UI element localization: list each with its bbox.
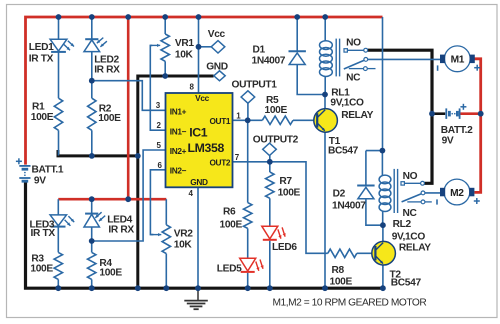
wire VR2 top lead [165, 199, 167, 225]
wire LED3 cathode to R3 [57, 227, 59, 253]
svg-text:LED1: LED1 [29, 42, 54, 53]
svg-text:BC547: BC547 [391, 277, 422, 288]
LED1 IR TX diode [50, 39, 67, 51]
node OUTPUT2 tag [263, 143, 277, 155]
LED4 IR RX diode [85, 213, 98, 215]
svg-text:LED6: LED6 [272, 242, 297, 253]
svg-text:100E: 100E [220, 219, 243, 230]
motor M2 polarity marks [436, 199, 438, 204]
svg-text:LED5: LED5 [217, 264, 242, 275]
resistor R4 [88, 252, 96, 279]
resistor R6 [244, 203, 252, 229]
relay RL1 pole [344, 60, 364, 69]
wire BATT.2 minus stub (black) [432, 112, 445, 115]
svg-text:VR2: VR2 [174, 229, 193, 240]
ground symbol [197, 288, 199, 300]
wire RL2 supply branch [366, 150, 383, 152]
junction dot R2 bottom [89, 153, 95, 159]
svg-text:GND: GND [206, 62, 228, 73]
resistor R1 [54, 98, 62, 130]
svg-text:M2: M2 [450, 188, 464, 199]
wire riser +9V rail end down to RL2 (blue) [382, 17, 384, 151]
relay RL1 coil [320, 41, 333, 50]
svg-text:D1: D1 [253, 45, 266, 56]
svg-text:Vcc: Vcc [195, 93, 209, 103]
potentiometer VR2 [162, 225, 170, 254]
junction dot Vcc stub [196, 44, 202, 50]
junction dot OUT1 node [245, 117, 251, 123]
resistor R2 [88, 98, 96, 130]
wire LED1 anode [58, 17, 60, 39]
junction dot BATT.2 plus [478, 111, 484, 117]
svg-text:100E: 100E [98, 113, 121, 124]
svg-text:VR1: VR1 [175, 38, 194, 49]
wire Vcc tag stub [199, 46, 212, 48]
motor M1 [444, 46, 470, 72]
wire T2 collector [382, 225, 384, 241]
wire BATT.2 plus to motors M1/M2 (red) [474, 59, 480, 193]
svg-text:RELAY: RELAY [341, 110, 373, 121]
svg-text:NO: NO [403, 171, 418, 182]
wire RL1 pole to M1 [368, 58, 441, 60]
wire GND bus from GND tag left and down (black) [138, 76, 214, 288]
wire VR2 bottom to ground bus [165, 254, 167, 289]
wire T1 emitter to ground bus [324, 131, 326, 288]
wire node LED4-R4 to IC pin5 IN2+ [92, 150, 166, 241]
relay RL2 pole [402, 194, 421, 202]
svg-text:OUTPUT1: OUTPUT1 [232, 79, 278, 90]
junction dot RL2 supply node [380, 148, 386, 154]
junction dot T1 collector node [322, 92, 328, 98]
wire +9V drop to IR LED supply row (red) [127, 17, 130, 199]
svg-text:M1,M2 = 10 RPM GEARED MOTOR: M1,M2 = 10 RPM GEARED MOTOR [273, 298, 427, 309]
svg-text:RL2: RL2 [393, 219, 412, 230]
svg-text:R1: R1 [32, 101, 45, 112]
wire VR1 top lead [164, 17, 166, 34]
junction dots IR LED supply row [89, 196, 95, 202]
motor M1 polarity marks [437, 65, 439, 70]
svg-text:9V,1CO: 9V,1CO [330, 98, 364, 109]
wire RL2 coil bottom to node [382, 211, 384, 225]
svg-text:OUT2: OUT2 [209, 158, 230, 168]
svg-text:BATT.2: BATT.2 [441, 125, 473, 136]
relay RL1 NO contact [344, 49, 347, 52]
battery BATT.2 plus sign [460, 106, 466, 108]
svg-text:100E: 100E [330, 277, 353, 288]
svg-text:GND: GND [190, 177, 208, 187]
wire bottom ground bus (black) [26, 181, 385, 288]
svg-text:10K: 10K [174, 240, 193, 251]
junction dot LED2-R2 node [89, 78, 95, 84]
svg-text:IR RX: IR RX [108, 224, 134, 235]
svg-text:BATT.1: BATT.1 [32, 165, 64, 176]
relay RL1 core [335, 39, 337, 77]
svg-text:9V,1CO: 9V,1CO [392, 231, 426, 242]
wire LED4 anode to R4 [91, 227, 93, 252]
wire LED2 cathode lead [91, 17, 93, 39]
wire IC pin4 to ground [197, 187, 199, 288]
LED6 emission arrows [278, 229, 281, 238]
diode D2 1N4007 [358, 187, 374, 199]
wire OUTPUT1 tag stem [247, 103, 249, 120]
LED2 receive arrows [100, 41, 107, 47]
svg-text:NO: NO [346, 37, 361, 48]
wire Vcc riser to IC pin8 [198, 17, 200, 93]
LED5 red indicator [240, 258, 256, 271]
wire node LED2-R2 to IC pin3 IN1+ [92, 81, 166, 111]
wire D2 cathode lead [365, 151, 367, 186]
wire R7 to LED6 [269, 198, 271, 226]
wire R3 to ground bus [57, 279, 59, 288]
svg-text:IN1+: IN1+ [170, 107, 187, 117]
svg-text:IR TX: IR TX [29, 53, 54, 64]
LED1 emission arrows [64, 44, 70, 50]
wire R6 to LED5 [247, 228, 249, 258]
svg-text:1N4007: 1N4007 [332, 201, 366, 212]
svg-text:RELAY: RELAY [399, 242, 431, 253]
wire D2 anode to T2 collector node [366, 199, 383, 225]
svg-text:R6: R6 [223, 207, 236, 218]
battery BATT.2 [445, 108, 447, 119]
wire OUT2 junction to R8 [270, 162, 328, 254]
wire +9V rail from BATT.1 plus across top (red) [26, 17, 383, 165]
LED3 emission arrows [65, 220, 71, 226]
svg-text:R3: R3 [31, 253, 44, 264]
node Vcc tag [211, 41, 225, 53]
svg-text:100E: 100E [278, 188, 301, 199]
svg-text:100E: 100E [31, 112, 54, 123]
junction dots top rail [56, 14, 62, 20]
diode D1 1N4007 [289, 53, 305, 65]
LED5 emission arrows [256, 262, 259, 271]
svg-text:OUTPUT2: OUTPUT2 [253, 134, 299, 145]
wire GND branch to R1/R2 bottoms (black) [58, 150, 138, 156]
svg-text:NC: NC [403, 208, 418, 219]
LED3 IR TX diode [50, 215, 66, 226]
wire LED1 cathode to R1 [58, 52, 60, 98]
resistor R7 [266, 172, 274, 198]
wire R7 top [269, 162, 271, 172]
potentiometer VR1 [161, 34, 169, 61]
node OUTPUT1 tag [241, 91, 255, 103]
wire LED5 cathode to ground bus [247, 273, 249, 288]
wire VR2 wiper to IC pin6 IN2- [150, 170, 165, 235]
junction dot OUT2 node [267, 159, 273, 165]
svg-text:LM358: LM358 [188, 141, 225, 155]
wire relay NO contacts to BATT.2 minus (black) [367, 50, 432, 183]
junction dot LED4-R4 node [89, 238, 95, 244]
wire T1 collector [324, 95, 326, 110]
wire R8 to T2 base [357, 252, 376, 254]
VR2 wiper arrow [150, 234, 161, 236]
relay RL2 core [393, 169, 395, 213]
relay RL1 NC contact [349, 68, 364, 70]
wire R2 bottom to GND branch [91, 130, 93, 155]
wire R4 to ground bus [91, 279, 93, 288]
junction dot GND branch corner [135, 153, 141, 159]
svg-text:10K: 10K [175, 50, 194, 61]
wire LED2 anode to R2 [91, 52, 93, 99]
wire RL2 pole to M2 [425, 192, 441, 194]
resistor R5 [262, 116, 293, 124]
svg-text:9V: 9V [442, 135, 454, 146]
op-amp IC1 LM358 body [166, 93, 233, 187]
wire LED3 anode [57, 199, 59, 215]
wire IC pin1 OUT1 to R5 [233, 119, 263, 121]
svg-text:9V: 9V [34, 176, 46, 187]
wire RL1 coil top lead [324, 17, 326, 41]
junction dots ground bus [55, 285, 61, 291]
relay RL2 NC contact [407, 201, 421, 203]
motor M2 [444, 179, 470, 205]
LED2 IR RX diode [85, 38, 98, 40]
LED6 red indicator [262, 226, 278, 239]
wire IR LED supply row (red) [58, 198, 166, 201]
transistor T2 BC547 [372, 241, 396, 265]
svg-text:IC1: IC1 [189, 126, 208, 140]
junction dot VR1-GND [162, 73, 168, 79]
wire LED6 cathode to ground bus [269, 241, 271, 289]
node GND tag [214, 71, 225, 81]
svg-text:OUT1: OUT1 [209, 116, 230, 126]
wire BATT.2 plus stub (red) [459, 112, 480, 115]
battery BATT.1 plus sign [16, 160, 22, 162]
wire IC pin7 OUT2 to junction [233, 161, 270, 163]
svg-text:100E: 100E [265, 105, 288, 116]
wire R5 to T1 base [293, 119, 318, 121]
svg-text:IN2+: IN2+ [170, 146, 187, 156]
junction dot BATT.2 minus [429, 111, 435, 117]
relay RL2 coil [379, 175, 391, 184]
relay RL2 NO contact [401, 182, 404, 185]
wire RL2 coil top lead [381, 151, 383, 176]
svg-text:BC547: BC547 [328, 146, 359, 157]
svg-text:D2: D2 [333, 189, 346, 200]
svg-text:M1: M1 [451, 55, 465, 66]
transistor T1 BC547 [314, 109, 338, 133]
resistor R3 [54, 252, 62, 279]
wire OUT1 down to R6 [247, 120, 249, 202]
svg-text:IN1−: IN1− [170, 126, 187, 136]
svg-text:1N4007: 1N4007 [252, 55, 286, 66]
wire VR1 wiper to IC pin2 IN1- [150, 45, 165, 130]
svg-text:R7: R7 [279, 176, 292, 187]
svg-text:NC: NC [346, 72, 361, 83]
svg-text:100E: 100E [30, 264, 53, 275]
svg-text:R8: R8 [332, 265, 345, 276]
svg-text:IR RX: IR RX [94, 65, 120, 76]
wire D1 anode to T1 collector node [297, 65, 325, 95]
resistor R8 [328, 249, 357, 257]
svg-text:IR TX: IR TX [31, 228, 56, 239]
svg-text:Vcc: Vcc [208, 29, 226, 40]
junction dot T2 collector node [380, 222, 386, 228]
wire R1 bottom to GND branch [58, 130, 60, 155]
wire LED4 cathode lead [91, 199, 93, 213]
wire D1 cathode to +9V rail [296, 17, 298, 51]
LED4 receive arrows [99, 216, 105, 222]
wire RL1 coil bottom to node [324, 76, 326, 94]
battery BATT.1 [19, 165, 30, 167]
wire OUTPUT2 tag stem [269, 156, 271, 162]
VR1 wiper arrow [150, 44, 160, 46]
svg-text:IN2−: IN2− [170, 166, 187, 176]
wire VR1 bottom to GND bus [164, 61, 166, 76]
svg-text:100E: 100E [99, 267, 122, 278]
wire T2 emitter to ground bus [382, 265, 384, 289]
